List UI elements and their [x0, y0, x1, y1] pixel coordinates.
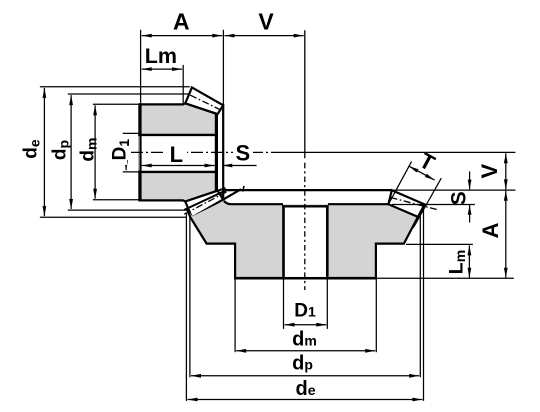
ext dp right	[419, 211, 421, 377]
dim dp left	[70, 95, 72, 209]
ext dm left	[234, 279, 236, 352]
ext S bottom	[392, 204, 475, 206]
wheel left flank	[187, 209, 235, 279]
label D1 left	[110, 134, 127, 165]
ext pinion front top	[140, 30, 142, 103]
wheel bottom face	[234, 277, 377, 280]
pinion front face	[139, 103, 141, 201]
dim S pinion arrow	[222, 164, 232, 168]
pinion top tooth	[185, 87, 223, 114]
label L	[166, 142, 187, 163]
dim V right	[505, 153, 507, 189]
dim Lm top	[142, 68, 182, 70]
dim de left	[43, 88, 45, 216]
ext de bottom	[40, 216, 186, 218]
svg-text:S: S	[447, 191, 470, 205]
svg-text:L: L	[170, 142, 183, 167]
dim A top	[142, 35, 223, 37]
ext pinion teeth back	[222, 30, 224, 105]
dim L	[142, 165, 215, 167]
ext wheel bottom	[377, 277, 514, 279]
wire mesh tip line ext	[217, 188, 226, 191]
ext Lm hub	[182, 65, 184, 104]
svg-text:dm: dm	[292, 329, 317, 351]
dim V top	[225, 35, 304, 37]
svg-text:D1: D1	[294, 301, 316, 322]
pinion hub back face	[215, 114, 218, 191]
ext D1 bottom	[123, 171, 140, 173]
dim dm left	[94, 105, 96, 198]
ext dm top	[93, 103, 140, 105]
label S pinion	[233, 142, 253, 162]
wheel hub top face	[224, 201, 283, 204]
wheel body	[187, 201, 418, 278]
ext D1 top	[123, 132, 140, 134]
wheel teeth back face	[223, 189, 392, 191]
T ext tick left	[389, 161, 412, 204]
ext D1 bore right	[326, 279, 328, 329]
svg-text:de: de	[295, 378, 315, 400]
svg-text:A: A	[173, 9, 190, 35]
ext de left	[185, 214, 187, 401]
ext de top	[40, 86, 190, 88]
pinion body	[139, 103, 217, 201]
pinion teeth back face	[222, 105, 224, 199]
ext dm bottom	[93, 199, 140, 201]
dim A right	[505, 191, 507, 278]
wire mesh root line ext	[223, 189, 242, 200]
dim dm bottom	[236, 350, 375, 352]
svg-text:Lm: Lm	[145, 44, 177, 68]
ext wheel teeth back	[392, 189, 516, 191]
ext wheel step	[406, 243, 473, 245]
ext dp left	[189, 215, 191, 377]
svg-text:A: A	[478, 222, 503, 238]
wheel bore D1	[285, 205, 326, 277]
pitch line top	[190, 95, 222, 110]
wheel left tooth tip line	[184, 190, 226, 210]
wheel centreline	[304, 30, 306, 158]
pitch line mesh	[184, 189, 231, 214]
ext dp bottom	[68, 209, 189, 211]
ext dm right	[375, 279, 377, 352]
wheel right tooth	[388, 190, 424, 217]
dim D1 bottom	[285, 324, 327, 326]
pitch line right	[391, 198, 438, 210]
dim Lm right	[468, 245, 470, 277]
dim S right arrows	[469, 171, 471, 189]
svg-text:dp: dp	[292, 353, 313, 375]
dim T	[409, 166, 435, 180]
ext D1 bore left	[283, 279, 285, 329]
pinion bottom tooth	[185, 191, 223, 218]
svg-text:S: S	[236, 141, 251, 166]
pinion centreline	[131, 151, 283, 153]
ext de right	[423, 207, 425, 401]
dim dp bottom	[191, 375, 419, 377]
svg-text:V: V	[477, 164, 502, 179]
wheel right flank	[376, 204, 425, 278]
svg-text:V: V	[258, 9, 274, 35]
dim de bottom	[188, 399, 423, 401]
T ext tick right	[414, 178, 442, 227]
ext dp top	[68, 93, 189, 95]
pinion bore D1	[139, 136, 216, 171]
dim D1 left	[125, 136, 127, 171]
